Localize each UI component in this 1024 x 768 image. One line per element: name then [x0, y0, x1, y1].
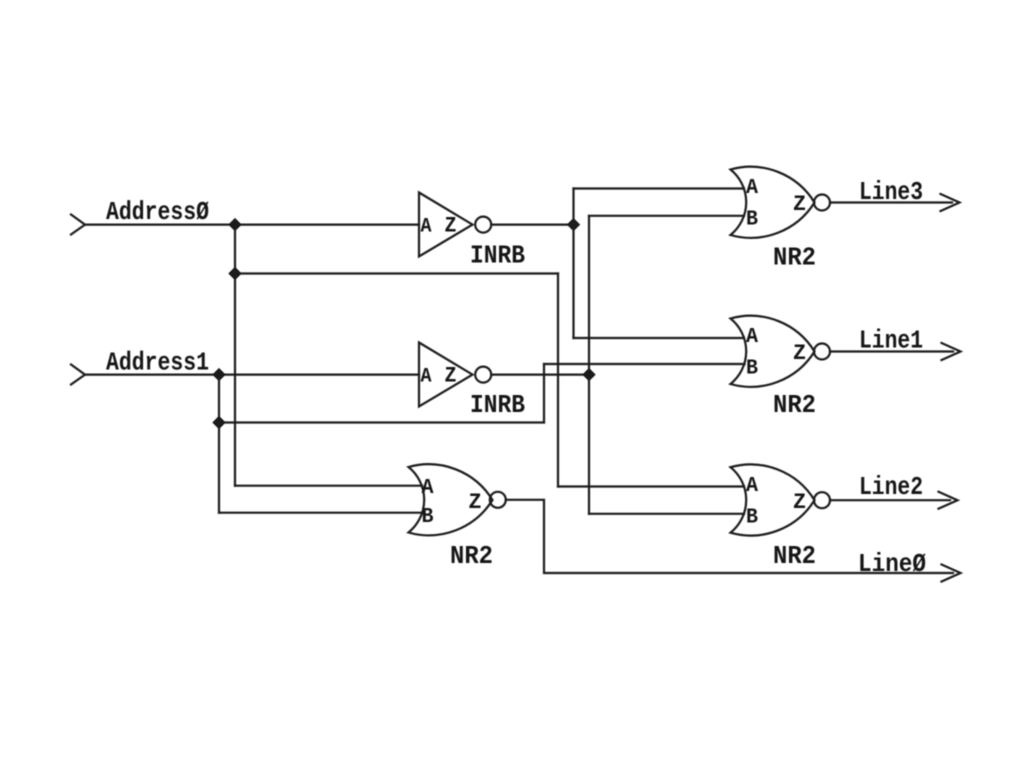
junction node invA1 — [583, 369, 595, 381]
wire vertical x589 — [588, 216, 590, 514]
junction node A0 branch — [229, 268, 241, 280]
junction node A1 — [213, 369, 225, 381]
svg-text:B: B — [422, 506, 434, 529]
NOR gate U3 body — [731, 316, 815, 387]
svg-text:NR2: NR2 — [773, 243, 816, 273]
wire Address1 input — [85, 374, 419, 376]
wire Address1 vertical — [218, 375, 220, 513]
NOR gate U3 bubble — [814, 344, 830, 360]
svg-text:Z: Z — [793, 341, 806, 366]
svg-text:LineØ: LineØ — [858, 549, 926, 579]
svg-text:NR2: NR2 — [450, 541, 493, 571]
svg-text:A: A — [746, 475, 758, 498]
svg-text:B: B — [746, 507, 758, 530]
NOR gate U2 bubble — [814, 195, 830, 211]
svg-text:A: A — [746, 326, 758, 349]
svg-text:Z: Z — [445, 364, 457, 389]
junction node A0 — [229, 219, 241, 231]
wire U6 output — [491, 374, 589, 376]
svg-text:Z: Z — [445, 214, 457, 239]
svg-text:Z: Z — [793, 192, 806, 217]
input arrow Address0 — [71, 215, 85, 235]
NOR gate U5 body — [409, 464, 493, 535]
wire U3 output Line1 — [830, 350, 953, 352]
NOR gate U2 body — [731, 167, 815, 238]
wire U5 output Line0 — [506, 500, 953, 573]
junction node invA0 — [568, 219, 580, 231]
output arrow Line3 — [941, 194, 960, 211]
wire vertical x558 — [557, 274, 559, 487]
svg-text:NR2: NR2 — [773, 390, 816, 420]
wire to U5 NOR A input — [235, 485, 422, 487]
svg-text:A: A — [421, 366, 432, 389]
svg-text:A: A — [746, 177, 758, 200]
svg-text:AddressØ: AddressØ — [106, 197, 209, 227]
NOR gate U4 body — [731, 464, 815, 535]
wire Address1 branch horizontal y423 — [219, 421, 544, 423]
wire U2 output Line3 — [830, 201, 952, 203]
svg-text:Line2: Line2 — [859, 472, 923, 502]
svg-text:B: B — [746, 209, 758, 232]
svg-text:B: B — [746, 358, 758, 381]
wire vertical x544 up — [543, 364, 545, 423]
output arrow Line1 — [942, 343, 961, 360]
svg-text:Line1: Line1 — [859, 326, 923, 356]
wire Address0 branch to Line2 gate — [235, 272, 558, 274]
wire U4 output Line2 — [830, 499, 950, 501]
output arrow Line0 — [942, 565, 961, 582]
svg-text:Address1: Address1 — [106, 348, 209, 378]
inverter U1 bubble — [475, 217, 491, 233]
svg-text:NR2: NR2 — [773, 541, 816, 571]
svg-text:A: A — [422, 477, 434, 500]
inverter U6 bubble — [475, 367, 491, 383]
svg-text:INRB: INRB — [470, 390, 525, 420]
inverter U1 triangle — [419, 193, 473, 257]
wire to U5 NOR B input — [219, 512, 422, 514]
svg-text:A: A — [421, 216, 432, 239]
output arrow Line2 — [939, 492, 958, 509]
wire U1 output — [491, 224, 573, 226]
wire Address0 vertical — [234, 225, 236, 486]
inverter U6 triangle — [419, 343, 473, 407]
wire to U3 NOR B input — [544, 363, 745, 365]
wire to U2 NOR B input — [589, 215, 744, 217]
input arrow Address1 — [71, 365, 85, 385]
wire to U4 NOR A input — [558, 485, 744, 487]
wire vertical x573 — [572, 189, 574, 339]
NOR gate U4 bubble — [814, 492, 830, 508]
NOR gate U5 bubble — [490, 492, 506, 508]
svg-text:INRB: INRB — [470, 241, 525, 271]
junction node A1 branch — [213, 417, 225, 429]
wire Address0 input — [85, 224, 419, 226]
svg-text:Z: Z — [469, 490, 482, 515]
wire to U2 NOR A input — [574, 187, 745, 189]
svg-text:Line3: Line3 — [859, 177, 923, 207]
wire to U3 NOR A input — [574, 337, 745, 339]
wire to U4 NOR B input — [589, 513, 744, 515]
svg-text:Z: Z — [793, 490, 806, 515]
